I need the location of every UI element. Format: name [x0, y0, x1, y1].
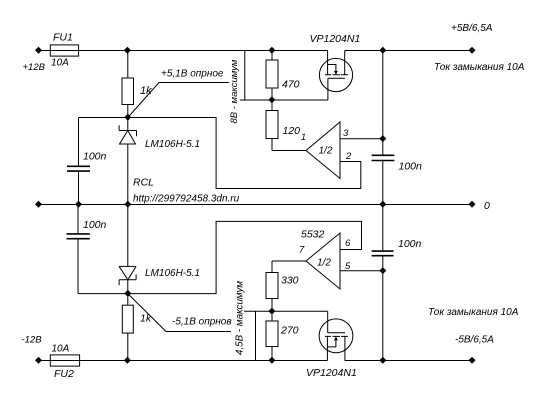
svg-text:270: 270	[280, 325, 299, 337]
svg-text:100n: 100n	[83, 219, 107, 231]
svg-text:7: 7	[299, 245, 305, 256]
svg-text:10А: 10А	[52, 344, 70, 355]
svg-text:+12В: +12В	[23, 62, 46, 73]
svg-text:4,5В - максимум: 4,5В - максимум	[235, 281, 246, 355]
svg-text:6: 6	[345, 238, 351, 249]
svg-text:5: 5	[345, 261, 351, 272]
svg-text:Ток замыкания 10А: Ток замыкания 10А	[428, 307, 519, 318]
svg-text:10А: 10А	[51, 58, 69, 69]
svg-text:http://299792458.3dn.ru: http://299792458.3dn.ru	[133, 194, 240, 205]
svg-text:3: 3	[343, 128, 349, 139]
svg-text:LM106H-5.1: LM106H-5.1	[145, 268, 200, 279]
svg-text:-5,1В опрнов: -5,1В опрнов	[172, 317, 232, 328]
svg-text:LM106H-5.1: LM106H-5.1	[145, 139, 200, 150]
svg-text:1: 1	[301, 132, 306, 142]
svg-text:VP1204N1: VP1204N1	[306, 367, 357, 379]
svg-text:VP1204N1: VP1204N1	[310, 33, 361, 45]
svg-text:1k: 1k	[140, 313, 152, 325]
svg-text:-5В/6,5А: -5В/6,5А	[455, 335, 494, 346]
svg-text:1/2: 1/2	[319, 146, 333, 157]
svg-text:RCL: RCL	[133, 177, 154, 189]
svg-text:5532: 5532	[301, 229, 325, 241]
svg-text:100n: 100n	[398, 238, 422, 250]
svg-text:0: 0	[484, 200, 490, 212]
svg-text:+5В/6,5А: +5В/6,5А	[451, 23, 493, 34]
svg-text:330: 330	[281, 275, 299, 287]
svg-text:2: 2	[345, 151, 352, 162]
svg-text:100n: 100n	[83, 151, 107, 163]
svg-text:Ток замыкания 10А: Ток замыкания 10А	[434, 62, 525, 73]
svg-text:+5,1В опрное: +5,1В опрное	[161, 69, 224, 80]
svg-text:1k: 1k	[140, 85, 152, 97]
svg-text:FU2: FU2	[54, 368, 74, 380]
svg-text:8В - максимум: 8В - максимум	[229, 59, 240, 123]
svg-text:120: 120	[283, 125, 301, 137]
svg-text:FU1: FU1	[53, 32, 73, 44]
svg-text:470: 470	[282, 79, 300, 91]
svg-text:100n: 100n	[399, 161, 423, 173]
svg-text:1/2: 1/2	[317, 258, 331, 269]
svg-text:-12В: -12В	[22, 335, 43, 346]
